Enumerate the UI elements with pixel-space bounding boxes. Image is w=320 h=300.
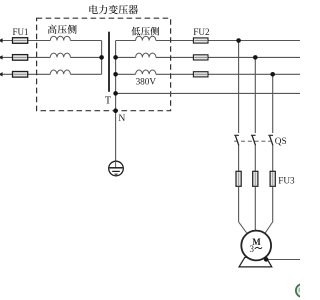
svg-text:T: T [105, 95, 112, 106]
junction: HV star point [99, 55, 104, 60]
wire: neutral line N to right [116, 92, 300, 94]
svg-text:3: 3 [250, 244, 255, 254]
source arrow phase L3 [0, 72, 3, 76]
transformer T secondary winding phase 2 [136, 53, 156, 57]
fuse FU3 pole 1 [236, 171, 241, 186]
transformer T secondary winding phase 1 [136, 36, 156, 40]
fuse FU2 pole 2 [193, 55, 208, 60]
junction: tap L2 to motor branch [253, 55, 258, 60]
wire: FU3-2 to motor [254, 186, 256, 231]
junction: motor frame to PEN bond [264, 257, 269, 262]
svg-text:FU1: FU1 [12, 27, 28, 37]
switch QS pole 1 [234, 134, 239, 136]
svg-text:QS: QS [275, 137, 287, 147]
wire: drop L2 to QS [254, 57, 256, 133]
wire: frame bonding conductor to right [266, 259, 300, 261]
junction: tap L3 to motor branch [270, 72, 275, 77]
junction: LV bus at L2 [113, 55, 118, 60]
motor base / machine frame [239, 257, 272, 267]
transformer T primary winding phase 1 [50, 36, 70, 40]
wire: FU3-1 to motor [238, 186, 240, 222]
wire: LV star bus / neutral down lead [115, 41, 117, 162]
svg-text:FU3: FU3 [278, 175, 295, 185]
wire: drop L3 to QS [272, 74, 274, 133]
junction: neutral at enclosure border [113, 108, 118, 113]
junction: LV bus at L3 [113, 72, 118, 77]
fuse FU3 pole 3 [270, 171, 275, 186]
junction: tap L1 to motor branch [236, 38, 241, 43]
QS mechanical linkage dashed [234, 140, 273, 142]
junction: neutral branch point [113, 91, 118, 96]
watermark logo circle bottom-right [296, 284, 309, 297]
transformer dashed enclosure [37, 18, 171, 111]
fuse FU2 pole 1 [193, 38, 208, 43]
wire: HV star bus [101, 41, 103, 75]
label 低压侧 LV side [131, 27, 140, 36]
motor M1 three-phase [241, 231, 271, 261]
svg-text:380V: 380V [136, 77, 157, 87]
label 高压侧 HV side [48, 25, 57, 34]
transformer T primary winding phase 2 [50, 53, 70, 57]
switch QS pole 2 [251, 134, 256, 136]
label 电力变压器 power transformer [89, 5, 97, 14]
fuse FU1 pole 3 [13, 72, 28, 78]
fuse FU1 pole 1 [13, 38, 28, 44]
fuse FU1 pole 2 [13, 55, 28, 61]
wire: phase L2 horizontal [1, 56, 50, 58]
wire: drop L1 to QS [238, 41, 240, 134]
source arrow phase L2 [0, 55, 3, 59]
svg-text:FU2: FU2 [193, 27, 210, 37]
fuse FU2 pole 3 [193, 72, 208, 77]
transformer T secondary winding phase 3 [136, 70, 156, 74]
earth ground symbol (working ground of neutral) [109, 161, 124, 176]
wire: phase L1 horizontal [1, 40, 50, 42]
source arrow phase L1 [0, 38, 3, 42]
transformer T primary winding phase 3 [50, 70, 70, 74]
wire: phase L3 horizontal [1, 73, 50, 75]
switch QS pole 3 [268, 134, 273, 136]
fuse FU3 pole 2 [253, 171, 258, 186]
svg-text:N: N [118, 113, 125, 124]
wire: FU3-3 to motor [272, 186, 274, 222]
transformer T core [108, 32, 110, 92]
